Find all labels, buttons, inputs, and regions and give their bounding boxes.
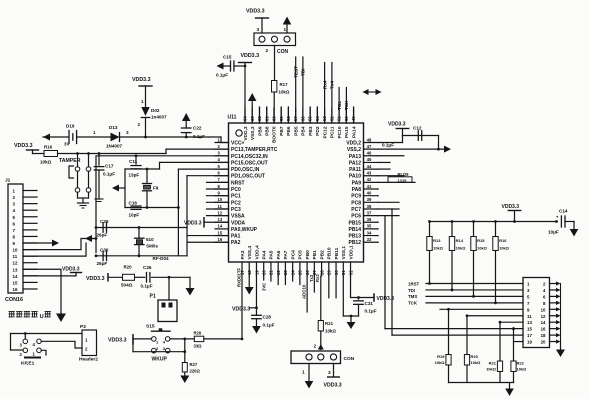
svg-text:C17: C17	[105, 164, 114, 169]
svg-text:PB4: PB4	[301, 126, 307, 136]
svg-text:PC14,OSC32,IN: PC14,OSC32,IN	[231, 154, 268, 160]
svg-text:13pF: 13pF	[129, 173, 140, 178]
svg-text:26pF: 26pF	[97, 261, 108, 266]
svg-text:15: 15	[218, 230, 223, 235]
svg-text:R20: R20	[471, 354, 479, 359]
svg-text:VDD3.3: VDD3.3	[388, 122, 406, 128]
svg-text:C12: C12	[413, 126, 422, 131]
svg-text:220Ω: 220Ω	[190, 369, 201, 374]
svg-text:10kΩ: 10kΩ	[435, 360, 446, 365]
svg-text:BOOT0: BOOT0	[272, 126, 278, 143]
svg-text:PB5: PB5	[293, 126, 299, 136]
svg-text:R16: R16	[44, 145, 53, 150]
svg-text:16: 16	[13, 287, 18, 292]
svg-text:3: 3	[126, 130, 129, 135]
svg-text:34: 34	[367, 230, 372, 235]
svg-text:C14: C14	[559, 209, 568, 214]
svg-text:38: 38	[367, 204, 372, 209]
svg-text:D19: D19	[66, 124, 75, 129]
svg-text:29: 29	[327, 270, 332, 275]
svg-text:13: 13	[13, 267, 18, 272]
svg-text:20: 20	[262, 270, 267, 275]
svg-text:C29: C29	[100, 219, 109, 224]
svg-text:11: 11	[218, 204, 223, 209]
svg-text:P2: P2	[80, 324, 86, 330]
svg-text:VSS,1: VSS,1	[341, 246, 347, 260]
svg-text:C30: C30	[100, 248, 109, 253]
svg-text:PB6: PB6	[286, 126, 292, 136]
svg-text:10kΩ: 10kΩ	[40, 160, 52, 165]
svg-text:PA4: PA4	[262, 250, 268, 259]
svg-text:PA7: PA7	[283, 250, 289, 259]
svg-text:1N4007: 1N4007	[106, 144, 123, 149]
svg-text:TEST: TEST	[293, 66, 298, 78]
svg-text:10kΩ: 10kΩ	[456, 246, 467, 251]
svg-text:VDD3.3: VDD3.3	[86, 276, 105, 282]
svg-text:CON: CON	[277, 49, 289, 55]
svg-text:VDD3.3: VDD3.3	[108, 338, 127, 344]
svg-text:15: 15	[527, 327, 532, 332]
svg-text:CON16: CON16	[5, 297, 23, 303]
svg-text:19: 19	[254, 270, 259, 275]
svg-text:KP,E1: KP,E1	[21, 361, 35, 367]
svg-text:23: 23	[283, 270, 288, 275]
svg-text:PA2: PA2	[231, 240, 241, 246]
svg-text:TCK: TCK	[344, 100, 349, 110]
svg-text:VDD3.3: VDD3.3	[232, 307, 250, 313]
svg-text:15: 15	[13, 280, 18, 285]
svg-text:PB3: PB3	[308, 126, 314, 136]
svg-text:30: 30	[334, 270, 339, 275]
svg-text:26: 26	[305, 270, 310, 275]
svg-text:PA10: PA10	[349, 174, 361, 180]
svg-text:PB10: PB10	[327, 247, 333, 259]
svg-text:18: 18	[247, 270, 252, 275]
svg-text:14: 14	[218, 224, 223, 229]
svg-text:PC15,OSC,OUT: PC15,OSC,OUT	[231, 160, 268, 166]
svg-text:TMS: TMS	[408, 294, 417, 299]
svg-text:13: 13	[527, 320, 532, 325]
svg-text:R14: R14	[456, 238, 464, 243]
svg-text:14: 14	[541, 320, 546, 325]
svg-text:35: 35	[367, 224, 372, 229]
svg-text:PC5: PC5	[298, 250, 304, 260]
svg-text:VSS,4: VSS,4	[247, 246, 253, 260]
svg-text:PC11: PC11	[330, 126, 336, 138]
svg-text:PC3: PC3	[231, 207, 241, 213]
svg-text:10: 10	[541, 307, 546, 312]
svg-text:1: 1	[93, 130, 96, 135]
svg-text:RLD9: RLD9	[398, 172, 410, 177]
svg-text:PA3: PA3	[240, 250, 246, 259]
svg-text:VDD3.3: VDD3.3	[324, 383, 342, 389]
svg-text:3: 3	[328, 370, 331, 376]
svg-text:D13: D13	[109, 125, 118, 130]
svg-text:PC2: PC2	[231, 200, 241, 206]
svg-text:C22: C22	[193, 126, 202, 131]
svg-text:VDD,2: VDD,2	[346, 141, 361, 147]
svg-text:VDD,1: VDD,1	[348, 245, 354, 259]
svg-text:R21: R21	[489, 361, 497, 366]
svg-text:504Ω: 504Ω	[121, 283, 133, 288]
svg-text:S15: S15	[146, 324, 155, 330]
svg-text:PA0,WKUP: PA0,WKUP	[231, 227, 258, 233]
svg-text:28: 28	[319, 270, 324, 275]
svg-text:R19: R19	[437, 354, 445, 359]
svg-text:10kΩ: 10kΩ	[433, 246, 444, 251]
svg-text:R21: R21	[325, 321, 334, 326]
svg-text:PA11: PA11	[349, 167, 361, 173]
svg-text:1: 1	[302, 370, 305, 376]
svg-text:33: 33	[367, 237, 372, 242]
svg-text:Rx4: Rx4	[322, 80, 327, 89]
svg-text:PA12: PA12	[349, 160, 361, 166]
svg-text:10pF: 10pF	[129, 213, 140, 218]
svg-text:10kΩ: 10kΩ	[486, 367, 497, 372]
svg-text:PB0: PB0	[305, 250, 311, 260]
svg-text:R20: R20	[124, 265, 133, 270]
svg-text:12: 12	[541, 314, 546, 319]
svg-text:Header2: Header2	[79, 357, 98, 363]
svg-text:PB9: PB9	[257, 126, 263, 136]
svg-text:NRST: NRST	[231, 180, 245, 186]
svg-text:RF-D04: RF-D04	[153, 256, 170, 261]
svg-text:C26: C26	[143, 265, 152, 270]
svg-text:PA6: PA6	[276, 250, 282, 259]
svg-text:PA5: PA5	[269, 250, 275, 259]
svg-text:U: U	[40, 314, 44, 320]
svg-text:42: 42	[367, 177, 372, 182]
svg-text:10kΩ: 10kΩ	[517, 367, 528, 372]
svg-text:VSS,3: VSS,3	[250, 126, 256, 140]
svg-text:1RST: 1RST	[408, 281, 420, 286]
svg-text:C31: C31	[365, 301, 374, 306]
svg-text:P1: P1	[150, 294, 156, 300]
svg-text:C28: C28	[263, 315, 272, 320]
svg-text:31: 31	[341, 270, 346, 275]
svg-text:Rx3: Rx3	[315, 274, 320, 282]
svg-text:PB2: PB2	[319, 250, 325, 260]
svg-text:14: 14	[13, 274, 18, 279]
svg-text:10kΩ: 10kΩ	[325, 329, 336, 334]
svg-text:PB12: PB12	[348, 240, 361, 246]
svg-text:CON: CON	[344, 356, 355, 362]
svg-text:12: 12	[13, 261, 18, 266]
svg-text:PC0: PC0	[231, 187, 241, 193]
svg-text:21: 21	[269, 270, 274, 275]
svg-text:41: 41	[367, 184, 372, 189]
svg-text:44: 44	[367, 164, 372, 169]
svg-text:16: 16	[541, 327, 546, 332]
svg-text:R26: R26	[194, 331, 202, 336]
svg-text:10kΩ: 10kΩ	[477, 246, 488, 251]
svg-text:PC8: PC8	[351, 200, 361, 206]
svg-text:47: 47	[367, 144, 372, 149]
svg-text:TCK: TCK	[408, 301, 418, 306]
svg-text:TGL: TGL	[337, 101, 342, 110]
svg-text:SM0s: SM0s	[146, 244, 158, 249]
svg-text:C16: C16	[129, 201, 138, 206]
svg-text:11: 11	[527, 314, 532, 319]
svg-text:0.1μF: 0.1μF	[216, 73, 228, 78]
svg-text:PC9: PC9	[351, 194, 361, 200]
svg-text:26pF: 26pF	[97, 233, 108, 238]
svg-text:1319: 1319	[398, 178, 408, 183]
svg-text:19: 19	[527, 340, 532, 345]
svg-text:R15: R15	[477, 238, 485, 243]
svg-text:PA8: PA8	[352, 187, 362, 193]
svg-text:Tx3: Tx3	[309, 274, 314, 282]
svg-text:46: 46	[367, 151, 372, 156]
svg-text:33Ω: 33Ω	[194, 344, 203, 349]
svg-text:VDD,3: VDD,3	[243, 126, 249, 140]
svg-text:10kΩ: 10kΩ	[279, 90, 290, 95]
svg-text:VCC+: VCC+	[231, 141, 245, 147]
svg-text:10: 10	[13, 248, 18, 253]
svg-text:3V: 3V	[64, 142, 69, 147]
svg-text:VDD,4: VDD,4	[254, 245, 260, 259]
svg-text:PB7: PB7	[279, 126, 285, 136]
svg-text:PA9: PA9	[352, 180, 362, 186]
svg-text:18: 18	[541, 333, 546, 338]
svg-text:VDD3.3: VDD3.3	[132, 77, 151, 83]
svg-text:PC10: PC10	[337, 126, 343, 138]
svg-text:PA13: PA13	[349, 154, 361, 160]
svg-text:0.1μF: 0.1μF	[103, 172, 115, 177]
svg-text:PC12: PC12	[322, 126, 328, 138]
svg-text:PA1: PA1	[231, 234, 241, 240]
svg-text:PB11: PB11	[334, 247, 340, 259]
svg-text:0.1μF: 0.1μF	[141, 284, 153, 289]
svg-text:10kΩ: 10kΩ	[471, 360, 482, 365]
svg-text:1: 1	[284, 27, 287, 33]
svg-text:U11: U11	[228, 115, 237, 121]
svg-text:D02: D02	[151, 108, 160, 113]
svg-text:0.1μF: 0.1μF	[365, 309, 377, 314]
svg-text:3: 3	[257, 27, 260, 33]
svg-text:VSS,2: VSS,2	[347, 147, 361, 153]
svg-text:1: 1	[141, 99, 144, 104]
svg-text:36: 36	[367, 217, 372, 222]
svg-text:20: 20	[541, 340, 546, 345]
svg-text:R13: R13	[433, 238, 441, 243]
svg-text:PC4: PC4	[290, 250, 296, 260]
svg-text:ADC10: ADC10	[301, 284, 306, 299]
svg-text:PA14: PA14	[351, 126, 357, 138]
svg-text:VDD3.3: VDD3.3	[246, 9, 265, 15]
svg-text:17: 17	[527, 333, 532, 338]
svg-text:24: 24	[290, 270, 295, 275]
svg-text:VDD3.3: VDD3.3	[184, 220, 202, 226]
svg-text:PC1: PC1	[231, 194, 241, 200]
svg-text:PC7: PC7	[351, 207, 361, 213]
svg-text:37: 37	[367, 210, 372, 215]
svg-text:PD2: PD2	[315, 126, 321, 136]
svg-text:VSSA: VSSA	[231, 214, 245, 220]
svg-text:48: 48	[367, 137, 372, 142]
svg-text:2: 2	[138, 122, 141, 127]
svg-text:C15: C15	[223, 55, 232, 60]
svg-text:0.1μF: 0.1μF	[193, 134, 205, 139]
svg-text:PB1: PB1	[312, 250, 318, 260]
svg-text:45: 45	[367, 157, 372, 162]
svg-text:J1: J1	[5, 178, 11, 184]
svg-text:27: 27	[312, 270, 317, 275]
svg-text:PB13: PB13	[348, 234, 361, 240]
svg-text:40: 40	[367, 190, 372, 195]
svg-text:13: 13	[218, 217, 223, 222]
svg-text:2: 2	[266, 48, 269, 54]
svg-text:F9: F9	[153, 186, 159, 191]
svg-text:PC6: PC6	[351, 214, 361, 220]
svg-text:VDDA: VDDA	[231, 220, 246, 226]
svg-text:TDI: TDI	[408, 288, 415, 293]
svg-text:TDI: TDI	[301, 68, 306, 76]
svg-text:510: 510	[146, 237, 154, 242]
svg-text:Tx4: Tx4	[330, 81, 335, 89]
svg-text:VDD3.3: VDD3.3	[241, 53, 260, 59]
svg-text:PB14: PB14	[348, 227, 361, 233]
svg-text:PC13,TAMPER,RTC: PC13,TAMPER,RTC	[231, 147, 278, 153]
svg-text:PD0,OSC,IN: PD0,OSC,IN	[231, 167, 260, 173]
svg-text:12: 12	[218, 210, 223, 215]
svg-text:2: 2	[314, 344, 317, 350]
svg-text:10kΩ: 10kΩ	[499, 246, 510, 251]
svg-text:0.1μF: 0.1μF	[263, 323, 275, 328]
svg-text:3VC: 3VC	[262, 283, 267, 291]
svg-text:PB8: PB8	[265, 126, 271, 136]
svg-text:C11: C11	[129, 159, 138, 164]
svg-text:10μF: 10μF	[548, 230, 559, 235]
svg-text:32: 32	[348, 270, 353, 275]
svg-text:RXD01TF: RXD01TF	[237, 268, 242, 287]
svg-text:R22: R22	[517, 361, 525, 366]
svg-text:43: 43	[367, 171, 372, 176]
svg-text:R16: R16	[499, 238, 507, 243]
svg-text:PA15: PA15	[344, 126, 350, 138]
svg-text:VDD3.3: VDD3.3	[14, 143, 33, 149]
svg-text:PD1,OSC,OUT: PD1,OSC,OUT	[231, 174, 265, 180]
svg-text:R27: R27	[190, 362, 198, 367]
svg-text:22: 22	[276, 270, 281, 275]
svg-text:0.1μF: 0.1μF	[382, 143, 394, 148]
svg-text:1n4007: 1n4007	[151, 115, 167, 120]
svg-text:PB15: PB15	[348, 220, 361, 226]
svg-text:16: 16	[218, 237, 223, 242]
svg-text:VDD3.3: VDD3.3	[502, 204, 520, 210]
svg-text:39: 39	[367, 197, 372, 202]
svg-text:10: 10	[218, 197, 223, 202]
svg-text:WKUP: WKUP	[152, 357, 168, 363]
svg-text:25: 25	[298, 270, 303, 275]
svg-text:VDD3.3: VDD3.3	[62, 267, 80, 273]
svg-text:R17: R17	[280, 82, 289, 87]
svg-text:11: 11	[13, 254, 18, 259]
